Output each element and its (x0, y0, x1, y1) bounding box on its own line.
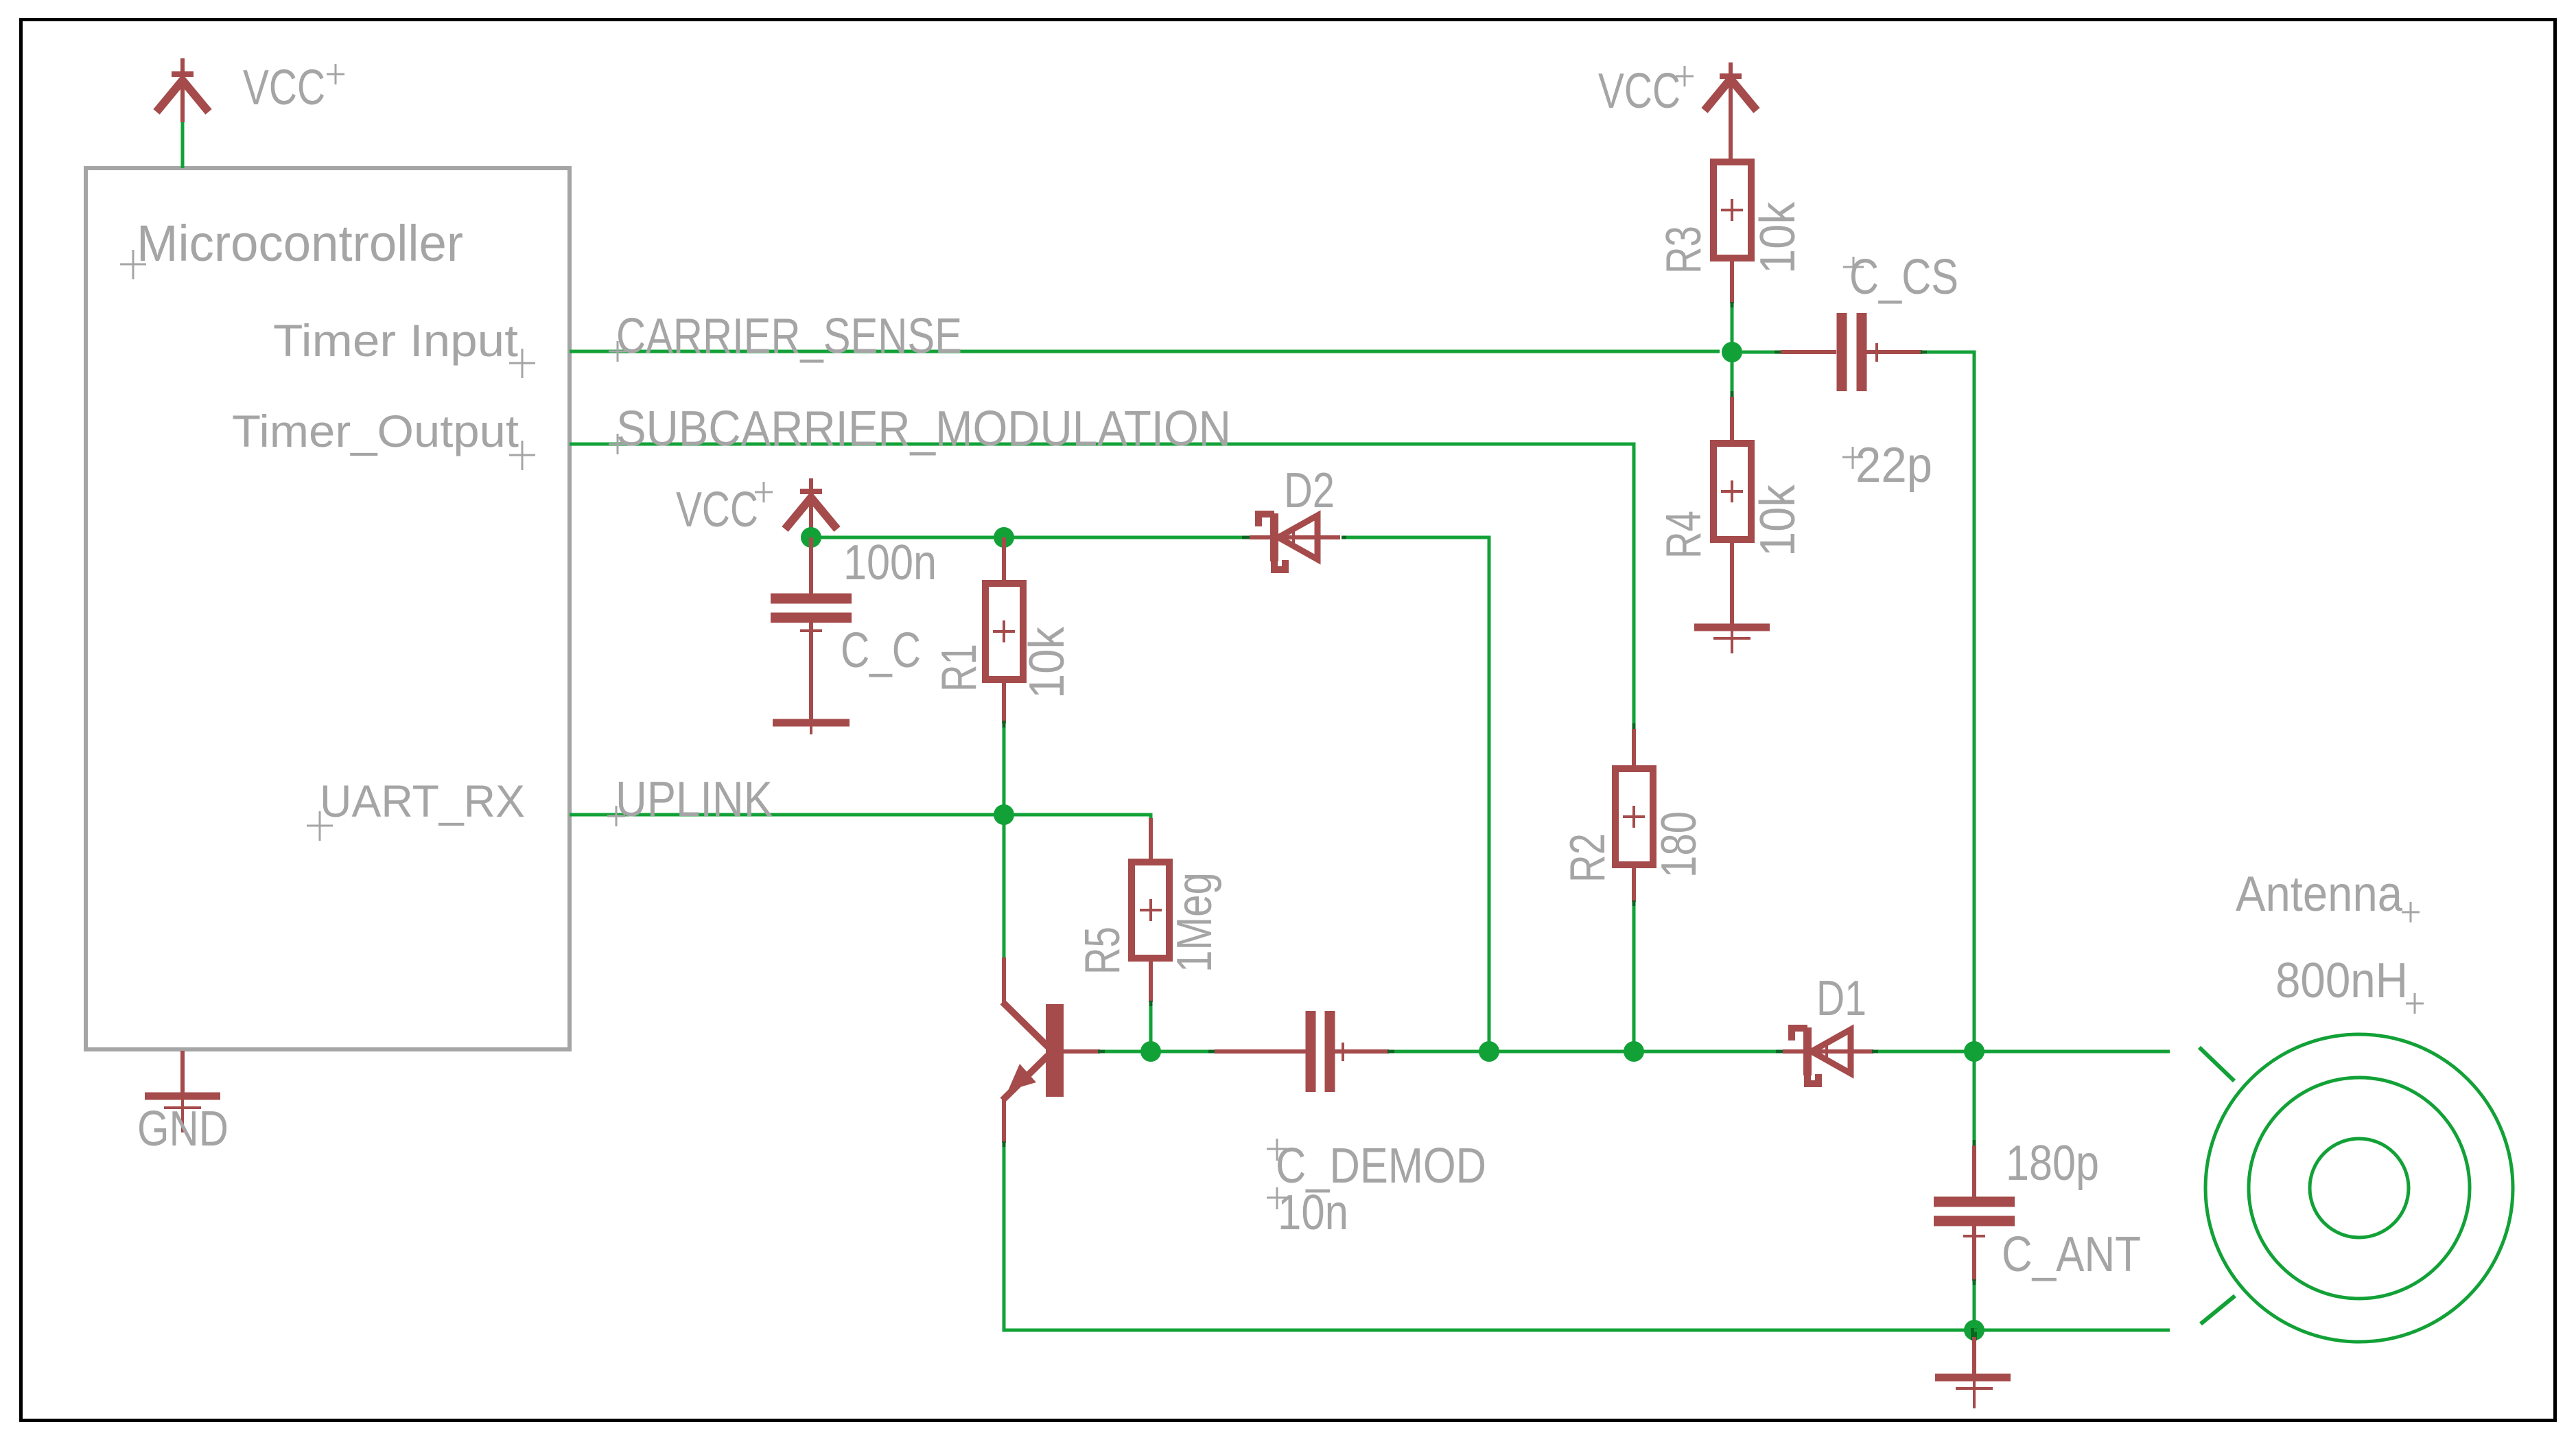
value 10n (1267, 1185, 1348, 1240)
power symbol VCC top-left (156, 58, 209, 122)
microcontroller box U1 (86, 168, 570, 1049)
svg-text:SUBCARRIER_MODULATION: SUBCARRIER_MODULATION (616, 402, 1231, 456)
svg-text:R5: R5 (1075, 927, 1130, 975)
junction R3-R4-C_CS (1722, 342, 1742, 362)
wire main row base to C_DEMOD (1151, 1050, 1215, 1054)
name C_DEMOD (1267, 1139, 1486, 1194)
svg-text:VCC: VCC (676, 482, 758, 537)
wire base to junction (1098, 1050, 1151, 1054)
wire emitter down and bottom row (1004, 1141, 1974, 1330)
value 180 (rotated) (1652, 811, 1707, 878)
resistor R4 (1713, 352, 1751, 624)
svg-text:Timer_Output: Timer_Output (232, 406, 519, 456)
value 10k of R3 (rotated) (1750, 201, 1805, 274)
svg-text:D1: D1 (1816, 971, 1866, 1026)
resistor R1 (985, 537, 1023, 815)
antenna L1 (2199, 1034, 2513, 1342)
svg-text:10k: 10k (1020, 626, 1075, 699)
net label CARRIER_SENSE (609, 309, 962, 364)
name D1 (1816, 971, 1866, 1026)
value 100n (843, 535, 937, 590)
value 10k of R1 (rotated) (1020, 626, 1075, 699)
wire UPLINK (570, 813, 1004, 817)
svg-text:R4: R4 (1656, 511, 1711, 559)
junction bottom row (1964, 1320, 1984, 1340)
svg-text:Timer Input: Timer Input (273, 315, 518, 366)
pin label Timer_Output (232, 406, 535, 470)
wire C_DEMOD to junctions (1387, 1050, 1783, 1054)
wire C_CS to right corner down (1921, 352, 1974, 1051)
ground bar below C_C (773, 723, 850, 734)
svg-text:R1: R1 (932, 644, 987, 692)
svg-text:GND: GND (137, 1102, 229, 1156)
capacitor C_C (771, 537, 852, 720)
wire UPLINK to R5 (1004, 815, 1151, 821)
name C_C (841, 623, 921, 678)
value 180p (2006, 1136, 2099, 1191)
power symbol VCC middle (785, 478, 837, 537)
resistor R2 (1615, 723, 1653, 1051)
svg-text:C_CS: C_CS (1849, 250, 1958, 305)
label VCC right (1598, 64, 1694, 119)
junction R2 main row (1624, 1041, 1644, 1062)
resistor R3 (1713, 162, 1751, 352)
svg-text:VCC: VCC (1598, 64, 1681, 119)
svg-text:VCC: VCC (243, 60, 325, 115)
name C_ANT (2002, 1227, 2141, 1282)
name R4 (rotated) (1656, 511, 1711, 559)
svg-text:Antenna: Antenna (2236, 867, 2403, 922)
name R5 (rotated) (1075, 927, 1130, 975)
svg-text:UART_RX: UART_RX (320, 776, 525, 826)
label GND (137, 1102, 229, 1156)
svg-text:CARRIER_SENSE: CARRIER_SENSE (616, 309, 962, 364)
label Microcontroller (120, 215, 463, 279)
junction base-R5 (1140, 1041, 1161, 1062)
label VCC top-left (243, 60, 344, 115)
svg-text:10k: 10k (1750, 201, 1805, 274)
junction VCC-C_C (801, 527, 821, 548)
svg-text:R3: R3 (1656, 226, 1711, 274)
value 10k of R4 (rotated) (1750, 484, 1805, 557)
value 800nH (2275, 953, 2424, 1014)
wire bottom row to antenna (1974, 1329, 2170, 1332)
svg-text:C_ANT: C_ANT (2002, 1227, 2141, 1282)
name D2 (1284, 463, 1335, 518)
svg-text:10k: 10k (1750, 484, 1805, 557)
ground below R4 (1694, 627, 1770, 653)
name C_CS (1843, 250, 1958, 305)
net label UPLINK (607, 772, 773, 827)
svg-text:R2: R2 (1560, 833, 1615, 883)
wire VCC to microcontroller (181, 122, 185, 168)
junction UPLINK-R1-collector (994, 804, 1014, 825)
wire CARRIER_SENSE (570, 350, 1720, 353)
pin label UART_RX (307, 776, 525, 841)
power symbol VCC right (1705, 62, 1757, 162)
name R2 (rotated) (1560, 833, 1615, 883)
svg-text:C_C: C_C (841, 623, 921, 678)
capacitor C_ANT (1934, 1051, 2015, 1330)
transistor Q1 (NPN, base right) (1003, 815, 1100, 1143)
wire SUBCARRIER_MODULATION (570, 444, 1634, 723)
svg-text:Microcontroller: Microcontroller (137, 215, 463, 272)
ground GND below microcontroller (145, 1051, 220, 1132)
svg-text:22p: 22p (1855, 438, 1932, 493)
wire VCC row (811, 536, 1250, 539)
pin label Timer Input (273, 315, 535, 378)
svg-text:1Meg: 1Meg (1167, 872, 1222, 973)
label VCC middle (676, 482, 773, 537)
name Antenna (2236, 867, 2420, 922)
svg-text:800nH: 800nH (2275, 953, 2408, 1008)
resistor R5 (1132, 818, 1169, 1051)
junction D2-branch main row (1479, 1041, 1499, 1062)
ground below C_ANT (1935, 1337, 2011, 1408)
capacitor C_DEMOD (1215, 1011, 1389, 1092)
diode D1 (zener) (1783, 1027, 1873, 1084)
name R1 (rotated) (932, 644, 987, 692)
junction main row right (1964, 1041, 1984, 1062)
svg-text:100n: 100n (843, 535, 937, 590)
wire D2 to corner (1342, 537, 1489, 1051)
svg-text:10n: 10n (1278, 1185, 1348, 1240)
value 22p (1842, 438, 1932, 493)
capacitor C_CS (1742, 313, 1922, 391)
svg-text:180p: 180p (2006, 1136, 2099, 1191)
junction VCC-R1 (994, 527, 1014, 548)
wire D1 to junction (1872, 1050, 2170, 1054)
net label SUBCARRIER_MODULATION (609, 402, 1231, 456)
diode D2 (zener) (1250, 513, 1340, 570)
svg-text:UPLINK: UPLINK (616, 772, 773, 827)
svg-text:180: 180 (1652, 811, 1707, 878)
value 1Meg (rotated) (1167, 872, 1222, 973)
svg-text:D2: D2 (1284, 463, 1335, 518)
name R3 (rotated) (1656, 226, 1711, 274)
